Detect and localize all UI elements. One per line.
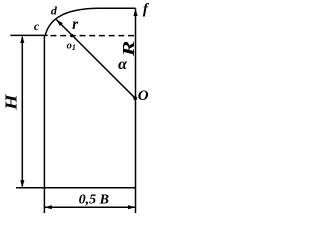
wire H extension line top xyxy=(10,34,47,36)
svg-text:H: H xyxy=(1,94,20,112)
svg-text:f: f xyxy=(143,2,150,18)
svg-text:0,5 B: 0,5 B xyxy=(79,192,109,207)
node arrowhead R up at f xyxy=(133,9,137,16)
wire center dashed line through o1 xyxy=(51,35,136,37)
wire right vertical edge xyxy=(135,8,137,213)
wire H dimension line xyxy=(21,37,23,187)
node arrowhead 0,5B right xyxy=(128,205,135,209)
wire top edge line xyxy=(97,7,136,9)
svg-text:α: α xyxy=(118,56,128,73)
svg-text:r: r xyxy=(72,16,79,33)
node arrowhead H bottom xyxy=(20,180,24,187)
svg-text:d: d xyxy=(51,3,58,17)
svg-text:R: R xyxy=(119,41,138,58)
node o1 junction dot xyxy=(70,34,73,37)
wire diagonal radius line d-o1-O xyxy=(56,20,135,99)
node arrowhead 0,5B left xyxy=(45,205,52,209)
node arrowhead r at d xyxy=(56,20,62,26)
wire left vertical edge xyxy=(43,35,45,213)
svg-text:o1: o1 xyxy=(67,41,76,52)
svg-text:c: c xyxy=(34,19,40,33)
node arrowhead H top xyxy=(20,36,24,43)
wire bottom edge xyxy=(16,187,136,189)
wire profile arc c-d-top xyxy=(45,8,100,35)
wire bottom dimension line 0,5B xyxy=(44,206,135,208)
node O junction dot xyxy=(133,96,137,100)
svg-text:O: O xyxy=(138,88,149,104)
